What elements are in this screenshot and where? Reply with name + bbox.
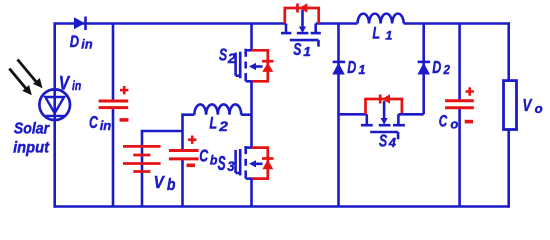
polarity minus Cb [187, 164, 196, 168]
svg-text:input: input [13, 139, 50, 157]
arrow sun ray 1 [18, 60, 43, 89]
svg-text:S: S [219, 45, 227, 65]
diode D2 [417, 62, 430, 75]
svg-text:3: 3 [227, 159, 235, 174]
svg-text:2: 2 [218, 120, 228, 135]
body diode of S3 [252, 148, 274, 179]
wire Co branch upper [458, 24, 461, 101]
wire S4 right stub [398, 113, 423, 116]
label L2 [209, 115, 227, 135]
battery Vb [123, 146, 161, 171]
svg-text:L: L [209, 115, 217, 133]
wire S3 source to bottom rail [250, 179, 253, 207]
wire L2 right lead [241, 113, 251, 116]
wire D1 branch [337, 24, 340, 207]
label Vin [59, 72, 81, 94]
label Din [70, 34, 93, 52]
label S4 [379, 131, 397, 151]
wire battery-Cb node horizontal [141, 130, 183, 133]
svg-text:Solar: Solar [14, 121, 50, 138]
wire left rail [53, 22, 56, 208]
body diode of S1 [285, 3, 319, 23]
diode Din [74, 17, 86, 31]
wire top rail left segment [55, 22, 286, 25]
svg-text:4: 4 [388, 135, 397, 150]
label Vo [522, 96, 542, 116]
polarity plus Cin [120, 86, 128, 94]
svg-text:S: S [293, 40, 301, 60]
svg-text:S: S [379, 131, 387, 151]
wire D2 branch [422, 24, 425, 115]
svg-text:S: S [218, 153, 226, 175]
svg-text:1: 1 [358, 63, 365, 77]
solar cell Vin (photodiode circle) [39, 89, 70, 120]
svg-text:C: C [439, 112, 448, 131]
label Co [439, 112, 459, 131]
svg-text:V: V [522, 96, 532, 115]
wire right rail lower [507, 130, 510, 208]
wire Cin branch upper [112, 24, 115, 102]
inductor L1 [358, 14, 404, 24]
label D2 [432, 58, 450, 78]
svg-text:b: b [210, 153, 218, 167]
label Cin [89, 113, 111, 133]
svg-text:C: C [89, 113, 99, 133]
wire S4 left stub [339, 113, 367, 116]
svg-text:o: o [535, 101, 543, 116]
capacitor Co [445, 101, 474, 108]
wire right rail upper [507, 22, 510, 80]
inductor L2 [194, 104, 241, 114]
svg-text:in: in [100, 118, 112, 133]
svg-text:2: 2 [227, 51, 236, 66]
wire Co branch lower [458, 108, 461, 207]
wire S2 drain from top rail [250, 24, 253, 51]
transistor S4 [361, 101, 405, 139]
svg-text:C: C [199, 146, 209, 166]
svg-text:V: V [154, 173, 165, 192]
label L1 [372, 25, 392, 43]
svg-text:D: D [70, 34, 80, 52]
svg-text:L: L [372, 25, 380, 43]
svg-text:D: D [347, 58, 356, 78]
wire bottom rail [55, 205, 509, 208]
label Vb [154, 173, 176, 194]
wire battery branch [141, 131, 144, 207]
wire Cb branch upper [181, 113, 184, 150]
polarity minus Co [465, 120, 473, 124]
wire S2 source to S3 drain (L2 node) [250, 81, 253, 147]
svg-text:in: in [81, 38, 93, 52]
label S1 [293, 40, 311, 60]
resistor load Vo [504, 81, 517, 130]
label Cb [199, 146, 217, 167]
arrow sun ray 2 [9, 69, 32, 96]
svg-text:1: 1 [385, 29, 392, 43]
capacitor Cin [99, 101, 129, 108]
transistor S2 [236, 49, 263, 82]
svg-text:1: 1 [303, 45, 311, 59]
polarity plus Co [466, 87, 474, 95]
wire L2 left lead [183, 113, 195, 116]
svg-text:2: 2 [443, 62, 451, 77]
diode D1 [332, 62, 345, 75]
label D1 [347, 58, 365, 78]
label S2 [219, 45, 236, 66]
polarity plus Cb [188, 136, 196, 144]
wire Cb branch lower [181, 159, 184, 207]
wire Cin branch lower [112, 108, 115, 207]
label S3 [218, 153, 235, 175]
transistor S1 [281, 10, 321, 47]
svg-text:D: D [432, 58, 441, 78]
wire top rail right segment [404, 22, 509, 25]
svg-text:o: o [450, 117, 458, 132]
polarity minus Cin [120, 118, 129, 122]
transistor S3 [236, 146, 263, 179]
svg-text:in: in [72, 79, 81, 93]
wire top rail between S1 and L1 [316, 22, 358, 25]
body diode of S4 [366, 94, 402, 114]
svg-text:b: b [167, 176, 176, 194]
body diode of S2 [252, 50, 274, 81]
svg-text:V: V [59, 72, 70, 94]
capacitor Cb [169, 151, 199, 159]
